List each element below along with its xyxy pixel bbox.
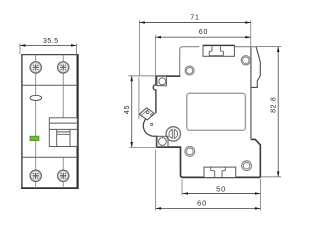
test button oval <box>30 95 42 100</box>
dimension 71 <box>139 15 251 120</box>
terminal screw top-right <box>58 62 69 73</box>
toggle boss arc <box>143 116 156 137</box>
label plate <box>187 93 246 130</box>
dimension 60 bottom <box>156 150 261 211</box>
terminal screw bottom-right <box>58 170 69 181</box>
svg-text:71: 71 <box>190 15 200 22</box>
trip button <box>166 127 180 141</box>
lower right edge with latch slant <box>251 139 260 177</box>
svg-text:50: 50 <box>216 184 226 193</box>
divider line lower <box>22 156 78 158</box>
screw hole lower-right <box>242 161 252 171</box>
dimension 45 <box>124 76 156 148</box>
front face upper edge <box>153 76 156 113</box>
svg-text:45: 45 <box>124 105 131 115</box>
green status indicator <box>30 136 39 140</box>
pole line bottom-left <box>35 157 37 188</box>
pole line right <box>62 55 64 118</box>
bottom-left step <box>156 147 260 177</box>
dimension 60 top <box>156 29 251 76</box>
dimension 35.5 <box>20 38 76 54</box>
front face lower edge <box>155 136 157 147</box>
hinge square upper <box>157 76 167 85</box>
breaker front body outline <box>21 54 78 189</box>
hinge square lower <box>157 136 168 146</box>
top terminal block <box>203 45 234 56</box>
bottom DIN tab <box>204 167 236 177</box>
svg-text:82.8: 82.8 <box>271 96 278 112</box>
top edge right segment <box>234 46 256 48</box>
screw hole upper-left <box>185 66 194 75</box>
front face step <box>156 75 181 77</box>
rear face (DIN recess) <box>250 47 252 140</box>
pole line left <box>35 55 37 158</box>
toggle switch front <box>49 118 77 147</box>
screw hole lower-left <box>185 147 195 157</box>
svg-text:60: 60 <box>197 198 207 207</box>
dimension 82.8 <box>256 47 281 177</box>
divider line upper <box>22 84 78 86</box>
pivot dot <box>151 123 153 125</box>
dimension 50 <box>182 179 260 195</box>
terminal screw top-left <box>30 62 41 73</box>
pole line bottom-right <box>62 157 64 188</box>
side body top-left edge <box>180 47 200 76</box>
toggle lever <box>139 108 154 120</box>
terminal screw bottom-left <box>30 170 41 181</box>
screw hole upper-right <box>241 56 250 65</box>
svg-text:35.5: 35.5 <box>43 38 59 45</box>
svg-text:60: 60 <box>199 29 209 36</box>
rear fin <box>251 47 260 88</box>
